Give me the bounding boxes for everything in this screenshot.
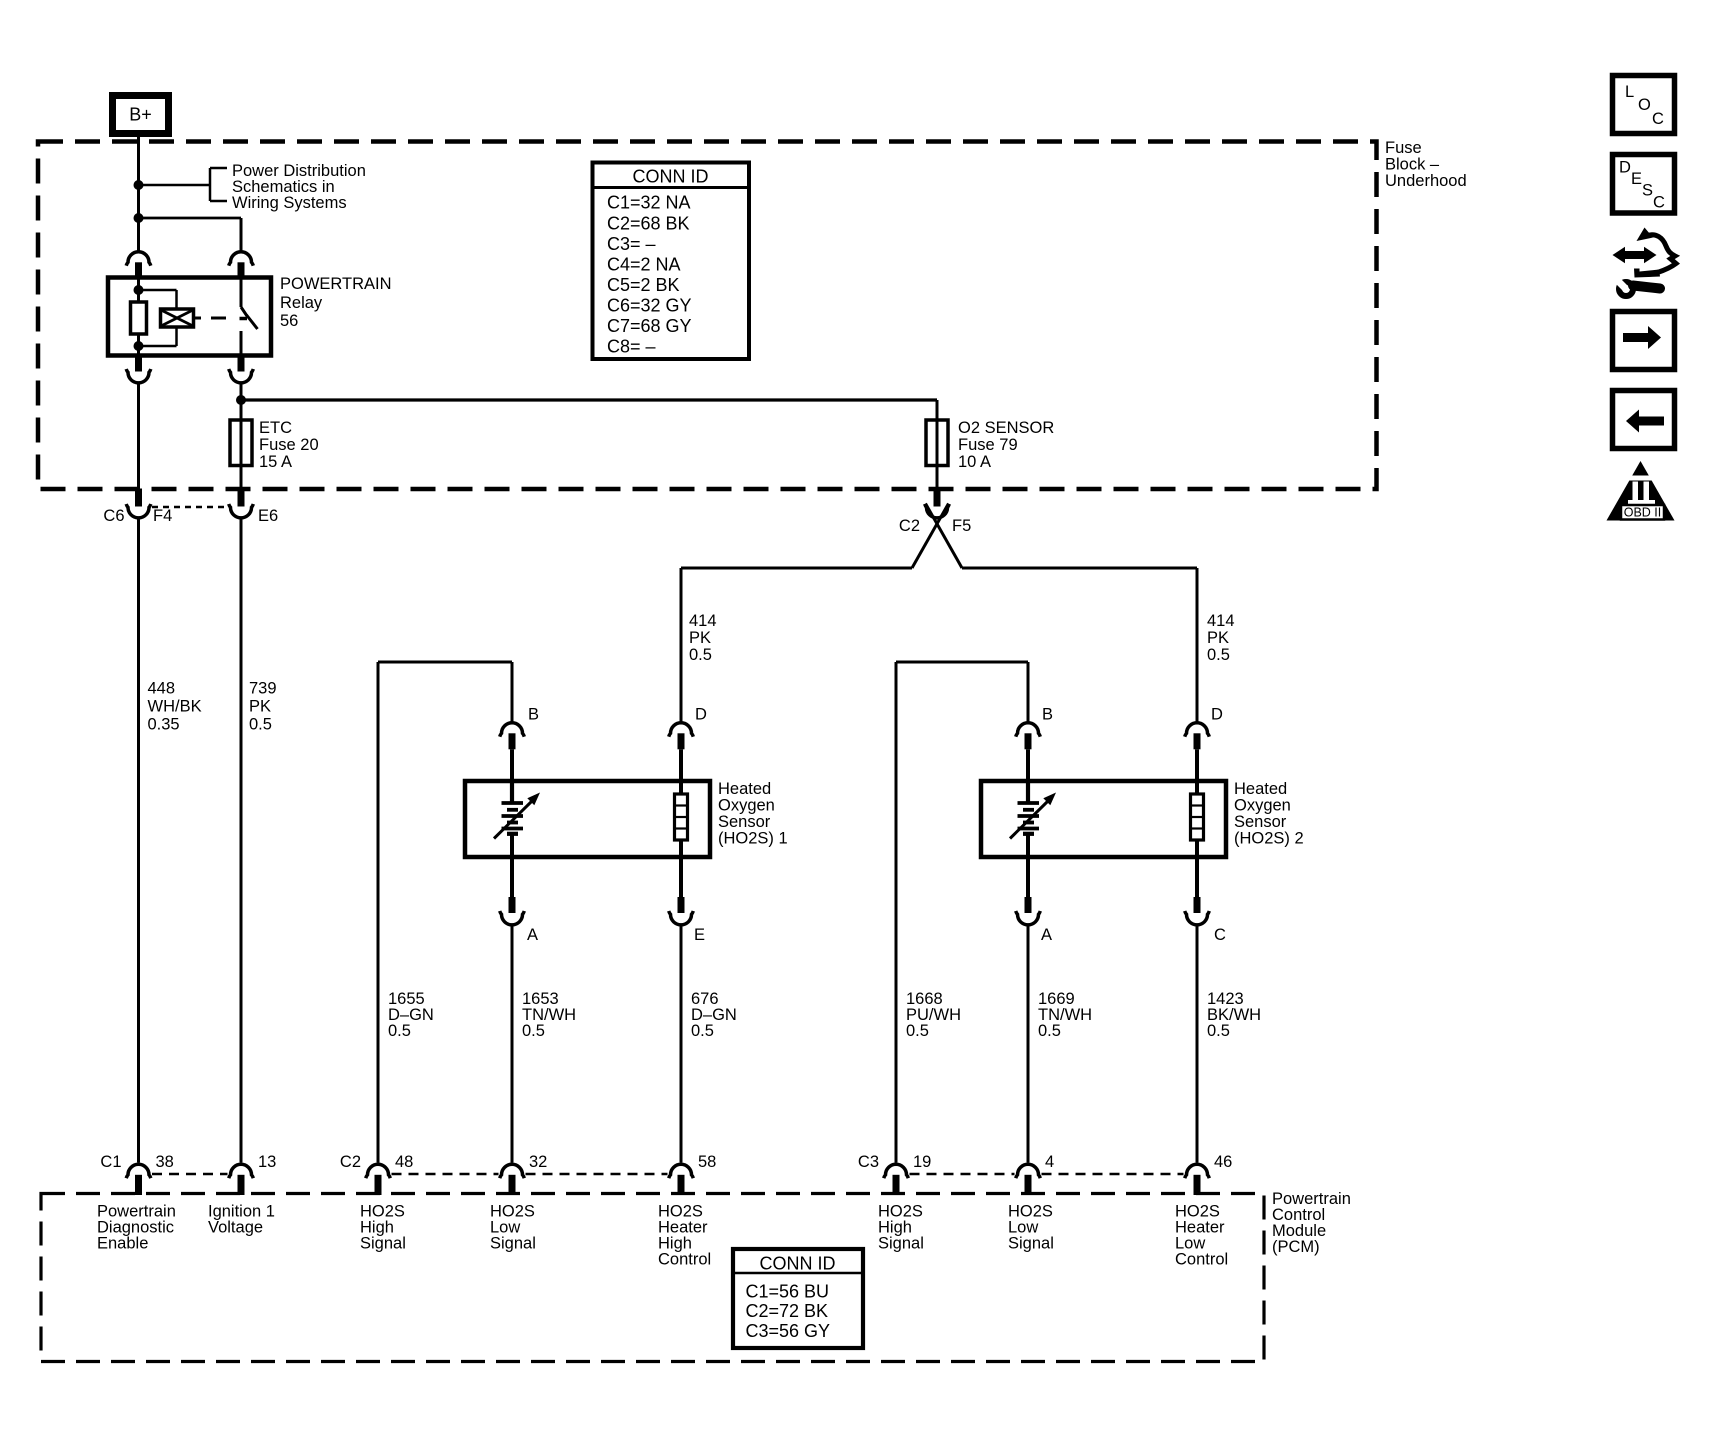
svg-text:C8= –: C8= – [607, 337, 656, 357]
svg-text:C5=2 BK: C5=2 BK [607, 275, 680, 295]
relay coil loop wires [139, 290, 177, 346]
svg-text:Block –: Block – [1385, 156, 1440, 174]
svg-text:(HO2S) 2: (HO2S) 2 [1234, 830, 1304, 848]
wire: 1668 loop PCM 19 to HO2S2 pin B [896, 662, 1028, 1163]
svg-text:38: 38 [156, 1153, 174, 1171]
connector C2/F5 with splice [925, 489, 950, 518]
svg-text:E: E [694, 926, 705, 944]
junction: power distribution tap [134, 180, 144, 190]
connector: HO2S2 pin C [1185, 897, 1210, 1163]
svg-text:Signal: Signal [490, 1235, 536, 1253]
svg-text:C1=56 BU: C1=56 BU [746, 1282, 830, 1302]
svg-text:Sensor: Sensor [718, 813, 771, 831]
svg-text:Enable: Enable [97, 1235, 148, 1253]
svg-text:OBD II: OBD II [1624, 506, 1662, 520]
connector: PCM pin 19 [884, 1164, 909, 1195]
svg-text:B: B [528, 706, 539, 724]
wire: 739 circuit E6 to PCM pin 13 [240, 520, 243, 1163]
svg-text:PK: PK [1207, 629, 1229, 647]
svg-text:13: 13 [258, 1153, 276, 1171]
svg-text:C: C [1214, 926, 1226, 944]
label: 739 PK 0.5 [249, 680, 277, 734]
svg-text:(PCM): (PCM) [1272, 1238, 1320, 1256]
svg-text:10 A: 10 A [958, 453, 991, 471]
svg-text:Underhood: Underhood [1385, 172, 1467, 190]
svg-text:A: A [1041, 926, 1052, 944]
junction: branch to relay switch [134, 213, 144, 223]
svg-text:D: D [1619, 159, 1631, 177]
svg-text:Relay: Relay [280, 294, 323, 312]
label: ETC Fuse 20 15 A [259, 419, 319, 471]
label: O2 SENSOR Fuse 79 10 A [958, 419, 1054, 471]
svg-text:E6: E6 [258, 507, 278, 525]
svg-text:C3=56 GY: C3=56 GY [746, 1321, 831, 1341]
relay actuation linkage (dashed) [194, 317, 227, 320]
connector: PCM pin 38 [126, 1164, 151, 1195]
svg-text:15 A: 15 A [259, 453, 292, 471]
wire: branch to relay switch input [139, 218, 242, 251]
svg-text:32: 32 [529, 1153, 547, 1171]
svg-text:Control: Control [658, 1251, 711, 1269]
label: 1669 TN/WH 0.5 [1038, 990, 1092, 1040]
relay resistor element [131, 302, 147, 334]
connector: PCM pin 48 [366, 1164, 391, 1195]
svg-text:Fuse: Fuse [1385, 139, 1422, 157]
svg-text:0.5: 0.5 [249, 716, 272, 734]
svg-text:Sensor: Sensor [1234, 813, 1287, 831]
svg-text:A: A [527, 926, 538, 944]
svg-text:0.5: 0.5 [1038, 1022, 1061, 1040]
svg-text:46: 46 [1214, 1153, 1232, 1171]
connector: relay switch pin (bottom right) [229, 356, 254, 383]
relay K56 POWERTRAIN Relay box [108, 278, 271, 356]
svg-text:Signal: Signal [878, 1235, 924, 1253]
connector: PCM pin 58 [669, 1164, 694, 1195]
svg-text:C6=32 GY: C6=32 GY [607, 296, 692, 316]
connector: PCM pin 4 [1016, 1164, 1041, 1195]
fuse F79: O2 SENSOR Fuse 79 10A [926, 420, 948, 466]
label: 414 PK 0.5 (right) [1207, 612, 1235, 664]
svg-text:414: 414 [689, 612, 717, 630]
svg-text:C2: C2 [899, 517, 920, 535]
label: POWERTRAIN Relay 56 [280, 275, 392, 330]
svg-text:56: 56 [280, 312, 298, 330]
label: HO2S Low Signal (1) [490, 1203, 536, 1253]
wire: 1655 loop PCM 48 to HO2S1 pin B [378, 662, 512, 1163]
label: Power Distribution Schematics in Wiring Systems [232, 162, 366, 212]
power feed B+ terminal [113, 96, 169, 134]
svg-text:C3: C3 [858, 1153, 879, 1171]
svg-text:58: 58 [698, 1153, 716, 1171]
label: 676 D-GN 0.5 [691, 990, 737, 1040]
connector: PCM pin 46 [1185, 1164, 1210, 1195]
connector: HO2S1 pin A [500, 897, 525, 1163]
svg-text:C4=2 NA: C4=2 NA [607, 254, 681, 274]
svg-text:B: B [1042, 706, 1053, 724]
icon: DESC box [1613, 155, 1675, 214]
relay coil branch wire bottom [134, 334, 144, 356]
label: 1668 PU/WH 0.5 [906, 990, 961, 1040]
label: HO2S Heater Low Control [1175, 1203, 1228, 1269]
svg-text:O: O [1638, 96, 1651, 114]
svg-text:0.5: 0.5 [388, 1022, 411, 1040]
HO2S2 sensing element [1010, 781, 1056, 897]
svg-text:0.5: 0.5 [522, 1022, 545, 1040]
label: HO2S High Signal (2) [878, 1203, 924, 1253]
wire: 448 circuit relay to C6 [137, 384, 140, 489]
svg-text:PK: PK [689, 629, 711, 647]
svg-text:Fuse 79: Fuse 79 [958, 436, 1018, 454]
svg-text:C7=68 GY: C7=68 GY [607, 316, 692, 336]
svg-text:19: 19 [913, 1153, 931, 1171]
svg-text:C3= –: C3= – [607, 234, 656, 254]
svg-text:48: 48 [395, 1153, 413, 1171]
svg-text:4: 4 [1045, 1153, 1054, 1171]
connector: PCM pin 13 [229, 1164, 254, 1195]
HO2S1 heater element [675, 781, 688, 897]
connector: HO2S2 pin B [1016, 723, 1041, 781]
svg-text:POWERTRAIN: POWERTRAIN [280, 275, 392, 293]
HO2S2 heater element [1191, 781, 1204, 897]
svg-text:739: 739 [249, 680, 277, 698]
wire: 448 circuit C6 to PCM pin 38 [137, 520, 140, 1163]
svg-text:0.5: 0.5 [689, 646, 712, 664]
label: Ignition 1 Voltage [208, 1203, 275, 1237]
svg-text:F5: F5 [952, 517, 971, 535]
label: Powertrain Control Module (PCM) [1272, 1190, 1351, 1256]
PCM dashed box [41, 1194, 1264, 1362]
connector C6/F4 (fuse block bottom left) [126, 489, 151, 518]
svg-text:C2: C2 [340, 1153, 361, 1171]
wire: 414 feed to HO2S2 pin D [962, 568, 1197, 722]
wire: B+ down to relay pin [137, 134, 140, 251]
svg-text:C2=72 BK: C2=72 BK [746, 1301, 829, 1321]
svg-text:Wiring Systems: Wiring Systems [232, 194, 347, 212]
reference bracket: power distribution schematics [139, 168, 228, 201]
label: HO2S Heater High Control [658, 1203, 711, 1269]
connector: HO2S2 pin D [1185, 723, 1210, 781]
fuse block underhood dashed box [38, 142, 1377, 490]
label: 414 PK 0.5 (left) [689, 612, 717, 664]
svg-text:C: C [1652, 110, 1664, 128]
svg-text:0.5: 0.5 [1207, 646, 1230, 664]
svg-text:Heated: Heated [718, 780, 771, 798]
label: Heated Oxygen Sensor (HO2S) 2 [1234, 780, 1304, 848]
connector: HO2S1 pin B [500, 723, 525, 781]
relay switch contact [240, 280, 258, 356]
svg-text:C1=32 NA: C1=32 NA [607, 193, 691, 213]
table: CONN ID (fuse block) [593, 163, 750, 360]
connector: HO2S2 pin A [1016, 897, 1041, 1163]
svg-text:Fuse 20: Fuse 20 [259, 436, 319, 454]
connector: relay switch pin (top right) [229, 252, 254, 280]
connector: relay coil pin (top left) [126, 252, 151, 280]
icon: forward arrow box [1613, 312, 1675, 370]
svg-text:O2 SENSOR: O2 SENSOR [958, 419, 1054, 437]
svg-text:S: S [1642, 182, 1653, 200]
svg-text:0.35: 0.35 [148, 716, 180, 734]
svg-text:CONN ID: CONN ID [760, 1254, 836, 1274]
icon: harness tool [1613, 228, 1677, 297]
svg-text:0.5: 0.5 [1207, 1022, 1230, 1040]
icon: back arrow box [1613, 391, 1675, 449]
svg-text:C1: C1 [100, 1153, 121, 1171]
svg-text:0.5: 0.5 [691, 1022, 714, 1040]
svg-text:D: D [695, 706, 707, 724]
svg-text:PK: PK [249, 698, 271, 716]
dotted connector ties at PCM [152, 1173, 1184, 1176]
svg-text:Signal: Signal [360, 1235, 406, 1253]
svg-text:Voltage: Voltage [208, 1219, 263, 1237]
svg-text:ETC: ETC [259, 419, 292, 437]
fuse F20: ETC Fuse 20 15A [230, 420, 252, 466]
HO2S1 sensor box [465, 781, 710, 857]
svg-text:CONN ID: CONN ID [633, 167, 709, 187]
label: Heated Oxygen Sensor (HO2S) 1 [718, 780, 788, 848]
svg-text:D: D [1211, 706, 1223, 724]
splice crossover to HO2S heater feeds [912, 504, 962, 569]
connector: HO2S1 pin D [669, 723, 694, 781]
label: 1655 D-GN 0.5 [388, 990, 434, 1040]
svg-text:Signal: Signal [1008, 1235, 1054, 1253]
label: HO2S High Signal (1) [360, 1203, 406, 1253]
label: HO2S Low Signal (2) [1008, 1203, 1054, 1253]
connector E6 [229, 489, 254, 518]
label: Powertrain Diagnostic Enable [97, 1203, 176, 1253]
junction: fused feed split [236, 395, 246, 405]
svg-text:L: L [1625, 83, 1634, 101]
svg-text:414: 414 [1207, 612, 1235, 630]
dotted connector tie C6-F4 to E6 [152, 506, 228, 509]
wire: relay output to ETC fuse and O2 fuse [241, 384, 937, 489]
label: Fuse Block - Underhood [1385, 139, 1467, 190]
svg-text:Oxygen: Oxygen [718, 797, 775, 815]
HO2S1 sensing element [494, 781, 540, 897]
connector: HO2S1 pin E [669, 897, 694, 1163]
icon: OBD II triangle [1607, 461, 1675, 521]
wire: 414 feed to HO2S1 pin D [681, 568, 912, 722]
svg-text:0.5: 0.5 [906, 1022, 929, 1040]
HO2S2 sensor box [981, 781, 1226, 857]
relay coil branch wire top [134, 280, 144, 303]
svg-text:E: E [1631, 170, 1642, 188]
relay solenoid coil (box with X) [161, 309, 194, 327]
svg-text:(HO2S) 1: (HO2S) 1 [718, 830, 788, 848]
table: CONN ID (PCM) [733, 1249, 863, 1348]
svg-text:F4: F4 [153, 507, 172, 525]
svg-text:WH/BK: WH/BK [148, 698, 202, 716]
connector: PCM pin 32 [500, 1164, 525, 1195]
svg-text:C6: C6 [103, 507, 124, 525]
svg-text:Control: Control [1175, 1251, 1228, 1269]
icon: LOC box [1613, 76, 1675, 134]
svg-text:Oxygen: Oxygen [1234, 797, 1291, 815]
label: 1423 BK/WH 0.5 [1207, 990, 1261, 1040]
label: 1653 TN/WH 0.5 [522, 990, 576, 1040]
label: 448 WH/BK 0.35 [148, 680, 202, 734]
connector: relay coil pin (bottom left) [126, 356, 151, 383]
svg-text:B+: B+ [129, 105, 152, 125]
svg-text:C2=68 BK: C2=68 BK [607, 213, 690, 233]
svg-text:Heated: Heated [1234, 780, 1287, 798]
svg-text:C: C [1653, 194, 1665, 212]
svg-text:448: 448 [148, 680, 176, 698]
